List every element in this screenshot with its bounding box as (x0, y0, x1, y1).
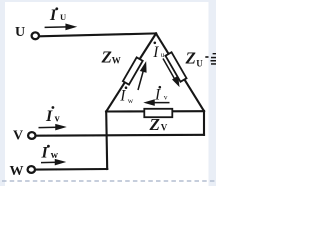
svg-text:Z: Z (101, 48, 112, 67)
svg-text:I: I (152, 44, 159, 61)
svg-text:U: U (15, 25, 25, 40)
svg-text:Z: Z (185, 49, 196, 68)
svg-text:Z: Z (149, 115, 160, 134)
svg-text:I: I (154, 86, 161, 103)
svg-text:I: I (119, 88, 126, 105)
svg-text:I: I (45, 108, 53, 125)
svg-text:W: W (112, 56, 121, 66)
svg-text:u: u (161, 50, 165, 59)
svg-text:W: W (10, 164, 24, 179)
svg-text:V: V (13, 129, 23, 144)
svg-text:w: w (128, 96, 134, 105)
svg-text:v: v (55, 113, 60, 124)
svg-text:U: U (60, 12, 66, 22)
svg-text:w: w (51, 150, 59, 161)
svg-text:U: U (196, 59, 203, 69)
svg-text:v: v (164, 93, 168, 102)
svg-text:V: V (161, 123, 168, 133)
